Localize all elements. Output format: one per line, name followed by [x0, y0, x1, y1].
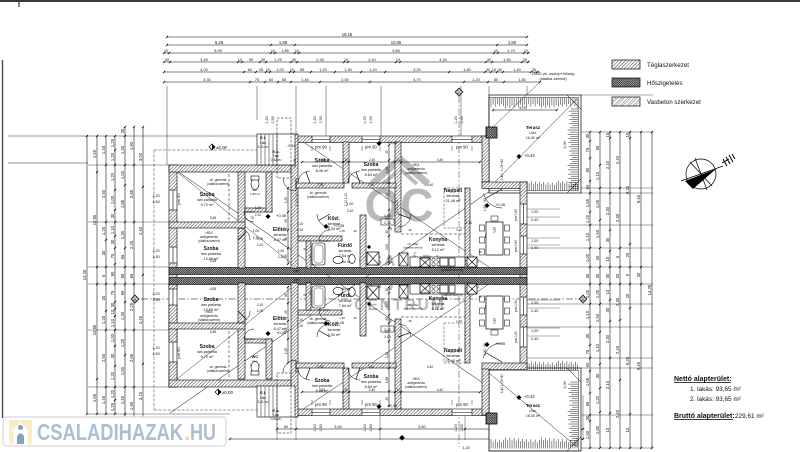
svg-text:1,00: 1,00: [585, 289, 590, 298]
svg-text:80: 80: [494, 78, 498, 82]
svg-text:1,50: 1,50: [369, 116, 373, 123]
svg-text:1,00: 1,00: [120, 170, 125, 179]
svg-text:2. lakás: 93,65 m²: 2. lakás: 93,65 m²: [690, 396, 741, 403]
svg-text:45: 45: [385, 397, 389, 401]
svg-text:4,45: 4,45: [138, 315, 143, 324]
svg-text:4,55: 4,55: [293, 269, 299, 273]
window top wall 3: [452, 136, 472, 143]
svg-text:1,00: 1,00: [295, 193, 299, 200]
svg-text:1,00: 1,00: [585, 253, 590, 262]
svg-text:10,95: 10,95: [92, 214, 97, 225]
svg-text:1,50: 1,50: [460, 116, 464, 123]
svg-text:1,50: 1,50: [319, 424, 323, 431]
svg-text:1,90: 1,90: [129, 141, 134, 150]
svg-text:+0,43: +0,43: [524, 394, 535, 399]
wall furdo top (top): [298, 236, 342, 241]
logo csaladihazak.hu: [3, 417, 226, 446]
dimension chains right: [589, 131, 591, 449]
svg-text:2,40: 2,40: [500, 387, 504, 394]
svg-text:45: 45: [408, 319, 412, 323]
svg-text:2,40: 2,40: [531, 246, 538, 250]
svg-text:1,00: 1,00: [395, 200, 399, 207]
window etkezo right 1: [520, 204, 528, 224]
svg-text:+0,45: +0,45: [387, 140, 398, 145]
svg-text:90: 90: [284, 219, 288, 223]
svg-text:1,65: 1,65: [585, 377, 590, 386]
svg-text:10: 10: [494, 49, 498, 53]
svg-text:4,55: 4,55: [293, 278, 299, 282]
svg-text:1,35: 1,35: [339, 316, 345, 320]
svg-text:50: 50: [585, 362, 590, 367]
svg-text:10: 10: [396, 158, 400, 162]
dimension chain top row 3: [163, 52, 530, 54]
svg-text:1,90: 1,90: [129, 401, 134, 410]
svg-text:1,50: 1,50: [483, 205, 487, 212]
svg-text:2,25: 2,25: [129, 302, 134, 311]
svg-text:85: 85: [300, 68, 304, 72]
svg-text:75: 75: [255, 78, 259, 82]
svg-text:1,20: 1,20: [472, 78, 479, 82]
svg-text:1,10: 1,10: [595, 171, 600, 180]
svg-text:85: 85: [284, 293, 288, 297]
svg-text:2,10: 2,10: [295, 200, 299, 207]
wall etkezo left (top): [465, 188, 470, 268]
interior h dim chain top: [301, 161, 481, 163]
svg-text:10: 10: [344, 158, 348, 162]
svg-text:75: 75: [385, 217, 389, 221]
svg-text:2,50: 2,50: [101, 189, 106, 198]
svg-text:-0,43: -0,43: [287, 144, 295, 148]
svg-text:1,20: 1,20: [152, 249, 159, 253]
svg-text:1,00: 1,00: [255, 206, 262, 210]
svg-text:10: 10: [605, 256, 610, 261]
svg-text:1,40: 1,40: [513, 68, 520, 72]
svg-text:10: 10: [295, 49, 299, 53]
svg-text:pm 0,90: pm 0,90: [514, 209, 518, 221]
svg-text:1,10: 1,10: [456, 228, 462, 232]
legend hoszigeteles: [612, 78, 640, 87]
window top wall 2: [362, 136, 380, 143]
svg-text:75: 75: [250, 216, 254, 220]
svg-text:30: 30: [523, 58, 527, 62]
svg-text:1,30: 1,30: [284, 348, 288, 354]
svg-text:2,40: 2,40: [369, 158, 375, 162]
svg-text:30: 30: [385, 230, 389, 234]
wall under szoba3 (bottom): [296, 363, 344, 368]
svg-text:10: 10: [605, 427, 610, 432]
wall szoba4|nappali (top): [395, 142, 401, 232]
exterior wall jog upper: [482, 182, 527, 189]
dimension chain top row 2: [166, 44, 528, 46]
svg-text:10: 10: [625, 132, 630, 137]
svg-text:90: 90: [595, 145, 600, 150]
section line A-A vertical: [458, 96, 460, 447]
dashed kitchen boundary top: [401, 233, 465, 235]
svg-text:t.ker.: t.ker.: [529, 131, 536, 135]
svg-text:75: 75: [110, 290, 115, 295]
svg-text:1,60: 1,60: [585, 430, 590, 439]
dining table bottom: [486, 296, 503, 329]
svg-text:10: 10: [271, 49, 275, 53]
wall under szoba3 (top): [296, 183, 344, 188]
svg-text:1,45: 1,45: [120, 395, 125, 404]
legend teglaszerkezet: [612, 60, 640, 69]
interior dim chain top unit: [388, 144, 390, 265]
wc wall right (bottom): [266, 339, 272, 379]
terrace bottom-right slab: [489, 368, 581, 451]
svg-text:30: 30: [101, 250, 106, 255]
svg-text:1,00: 1,00: [344, 193, 348, 200]
svg-text:10: 10: [524, 49, 528, 53]
svg-text:1. lakás: 93,65 m²: 1. lakás: 93,65 m²: [690, 386, 741, 393]
svg-text:1,20: 1,20: [152, 194, 159, 198]
door kozl-nappali top: [398, 214, 411, 227]
svg-text:Téglaszerkezet: Téglaszerkezet: [647, 62, 689, 69]
sink bottom: [333, 287, 343, 294]
svg-text:1,10: 1,10: [595, 343, 600, 352]
svg-text:9,25: 9,25: [625, 356, 630, 365]
svg-text:1,00: 1,00: [531, 210, 538, 214]
svg-text:30: 30: [165, 58, 169, 62]
svg-text:1,20: 1,20: [152, 346, 159, 350]
svg-text:1,00: 1,00: [531, 239, 538, 243]
window left wall 1: [169, 190, 178, 210]
svg-text:kerámia: kerámia: [339, 299, 352, 303]
svg-text:lam.parketta: lam.parketta: [361, 168, 381, 172]
svg-text:1,45: 1,45: [120, 145, 125, 154]
svg-text:1,25: 1,25: [120, 338, 125, 347]
svg-text:(statika szerint): (statika szerint): [441, 268, 463, 272]
door szoba1 top: [238, 228, 250, 240]
svg-text:90: 90: [249, 58, 253, 62]
vestibule/hall wall (bottom): [291, 283, 298, 417]
wall furdo left (bottom): [306, 283, 311, 310]
svg-text:2,50: 2,50: [341, 78, 348, 82]
interior dim chain bottom unit: [388, 286, 390, 407]
svg-text:6,12 m²: 6,12 m²: [432, 307, 446, 311]
svg-text:±0,00: ±0,00: [216, 145, 228, 150]
svg-text:2,40: 2,40: [531, 309, 538, 313]
svg-text:pm 90: pm 90: [365, 145, 377, 150]
svg-text:10: 10: [492, 68, 496, 72]
kitchen sink bottom: [440, 285, 448, 293]
svg-text:pm 90: pm 90: [315, 402, 327, 407]
svg-text:4,40: 4,40: [437, 158, 443, 162]
svg-text:10×30: 10×30: [293, 158, 297, 168]
svg-text:pm 90: pm 90: [315, 145, 327, 150]
svg-text:lam.parketta: lam.parketta: [201, 252, 221, 256]
wall szoba4|nappali (bottom): [395, 319, 401, 409]
svg-text:2,50: 2,50: [101, 353, 106, 362]
svg-text:t.ker.: t.ker.: [529, 409, 536, 413]
svg-text:1,10: 1,10: [456, 319, 462, 323]
svg-text:Hőszigetelés: Hőszigetelés: [647, 80, 682, 87]
level markers +0,45: [324, 224, 329, 229]
vestibule/hall wall (top): [291, 134, 298, 268]
svg-text:+0,45: +0,45: [276, 213, 287, 218]
svg-text:lam.parketta: lam.parketta: [312, 164, 332, 168]
svg-text:2,40: 2,40: [368, 183, 375, 187]
svg-text:±0,00: ±0,00: [222, 390, 234, 395]
wc toilet top: [251, 179, 259, 190]
svg-text:2,10: 2,10: [395, 207, 399, 214]
svg-text:30: 30: [595, 373, 600, 378]
svg-text:30: 30: [120, 128, 125, 133]
svg-text:1,20: 1,20: [454, 424, 458, 431]
svg-text:95: 95: [120, 254, 125, 259]
svg-text:1,50: 1,50: [152, 298, 159, 302]
wall furdo right (bottom): [360, 283, 366, 336]
witness lines right: [489, 131, 653, 133]
window etkezo right 2: [520, 236, 528, 254]
svg-text:2,40: 2,40: [369, 388, 375, 392]
svg-text:pm 90: pm 90: [456, 145, 468, 150]
svg-text:9,85: 9,85: [392, 49, 399, 53]
svg-text:8,46 m²: 8,46 m²: [316, 169, 330, 173]
bathtub top: [312, 243, 325, 265]
svg-text:30: 30: [110, 302, 115, 307]
svg-text:1,80: 1,80: [463, 68, 470, 72]
svg-text:(statika szerint): (statika szerint): [404, 307, 423, 311]
svg-text:+0,45: +0,45: [495, 202, 506, 207]
svg-text:2,25: 2,25: [129, 240, 134, 249]
door szoba3 top: [298, 171, 310, 183]
svg-text:4,00: 4,00: [563, 381, 567, 388]
svg-text:(statika szerint): (statika szerint): [405, 171, 427, 175]
svg-text:30: 30: [292, 58, 296, 62]
svg-text:2,30: 2,30: [605, 206, 610, 215]
svg-text:pm 0,90: pm 0,90: [514, 300, 518, 312]
wall left-rooms divider (bottom): [238, 283, 245, 379]
door wc top: [244, 212, 254, 222]
svg-text:1,10: 1,10: [297, 222, 304, 226]
svg-text:10: 10: [110, 309, 115, 314]
duct box (top): [399, 253, 408, 266]
svg-text:kerámia: kerámia: [274, 233, 287, 237]
svg-text:1,25: 1,25: [101, 315, 106, 324]
svg-text:1,25: 1,25: [110, 402, 115, 411]
svg-text:4,40: 4,40: [437, 388, 443, 392]
svg-text:10: 10: [344, 388, 348, 392]
watermark logo: [372, 159, 428, 184]
roof diagonal lines: [170, 166, 526, 413]
svg-text:lam.parketta: lam.parketta: [361, 380, 381, 384]
svg-text:75: 75: [478, 250, 482, 254]
svg-text:95: 95: [284, 237, 288, 241]
svg-text:HU: HU: [190, 419, 216, 445]
svg-text:65: 65: [282, 78, 286, 82]
svg-text:Vasbeton szerkezet: Vasbeton szerkezet: [647, 99, 701, 106]
svg-text:10,05: 10,05: [391, 40, 402, 45]
witness lines bottom: [276, 418, 278, 440]
washer bottom: [367, 286, 379, 299]
svg-text:85: 85: [284, 254, 288, 258]
svg-text:90: 90: [483, 343, 487, 347]
svg-text:pm 90: pm 90: [365, 402, 377, 407]
svg-text:4,55: 4,55: [210, 259, 217, 263]
svg-text:pm 90: pm 90: [456, 402, 468, 407]
svg-text:4,10: 4,10: [493, 227, 497, 233]
svg-text:2,30: 2,30: [615, 213, 620, 222]
door szoba3 bottom: [298, 368, 310, 380]
svg-text:90: 90: [585, 401, 590, 406]
svg-text:1,20: 1,20: [313, 424, 317, 431]
svg-text:1,50: 1,50: [595, 313, 600, 322]
svg-text:(statika szerint): (statika szerint): [207, 369, 229, 373]
svg-text:1,50: 1,50: [271, 116, 275, 123]
window bottom wall 2: [362, 409, 380, 416]
svg-text:8,64 m²: 8,64 m²: [365, 173, 379, 177]
entry porch top: [257, 134, 295, 165]
svg-text:pm 0,90: pm 0,90: [514, 331, 518, 343]
svg-text:30: 30: [585, 273, 590, 278]
svg-text:30: 30: [110, 353, 115, 358]
svg-text:2,10: 2,10: [255, 213, 262, 217]
svg-text:1,00: 1,00: [384, 335, 391, 339]
svg-text:60: 60: [248, 68, 252, 72]
door kozl arc top: [317, 214, 330, 227]
wc wall right (top): [266, 172, 272, 212]
svg-text:3,41 m²: 3,41 m²: [258, 145, 269, 149]
svg-text:2,10: 2,10: [257, 303, 264, 307]
svg-text:3,45: 3,45: [200, 58, 207, 62]
svg-text:30: 30: [261, 58, 265, 62]
svg-text:4,10: 4,10: [493, 318, 497, 324]
svg-text:2,40: 2,40: [531, 337, 538, 341]
window etkezo right 3: [520, 297, 528, 315]
sink top: [333, 256, 343, 263]
svg-text:4,00: 4,00: [200, 68, 207, 72]
svg-text:30: 30: [110, 239, 115, 244]
door kozl-nappali bottom: [398, 324, 411, 337]
svg-text:30: 30: [487, 58, 491, 62]
svg-text:1,50: 1,50: [595, 229, 600, 238]
svg-text:20: 20: [625, 252, 630, 257]
section line B-B: [141, 298, 583, 300]
door szoba1 bottom: [238, 311, 250, 323]
door terrace bottom: [483, 343, 502, 358]
svg-text:1,20: 1,20: [313, 116, 317, 123]
svg-text:2,10: 2,10: [344, 200, 348, 207]
svg-text:30: 30: [595, 273, 600, 278]
svg-text:1,20: 1,20: [595, 395, 600, 404]
wc wall bottom (top): [245, 208, 272, 212]
toilet bath top: [349, 255, 355, 264]
door szoba4 top: [348, 171, 360, 183]
svg-text:60: 60: [303, 293, 307, 297]
svg-text:1,30: 1,30: [120, 311, 125, 320]
wc toilet bottom: [251, 362, 259, 373]
svg-text:kerámia: kerámia: [447, 194, 460, 198]
svg-text:(statika szerint): (statika szerint): [307, 195, 329, 199]
svg-text:(statika szerint): (statika szerint): [405, 385, 427, 389]
svg-text:0,42 m²: 0,42 m²: [271, 158, 282, 162]
svg-text:1,20: 1,20: [363, 116, 367, 123]
svg-text:75: 75: [110, 253, 115, 258]
svg-text:1,00: 1,00: [531, 301, 538, 305]
svg-text:1,00: 1,00: [257, 237, 264, 241]
svg-text:2,40: 2,40: [615, 409, 620, 418]
svg-text:3,46: 3,46: [210, 330, 217, 334]
svg-text:2,35: 2,35: [317, 365, 324, 369]
dashed canopy line right: [444, 188, 465, 228]
svg-text:kerámia: kerámia: [274, 322, 287, 326]
svg-text:50: 50: [595, 255, 600, 260]
svg-text:85: 85: [120, 273, 125, 278]
exterior wall etkezo right: [520, 182, 527, 369]
svg-text:1,30: 1,30: [284, 197, 288, 203]
dimension chain top row 1 (18,15): [166, 36, 528, 38]
svg-text:10: 10: [238, 58, 242, 62]
svg-text:2,10: 2,10: [385, 193, 389, 199]
wall szoba3|szoba4 (bottom): [343, 368, 349, 409]
svg-text:95: 95: [120, 290, 125, 295]
svg-text:30: 30: [101, 295, 106, 300]
svg-text:10: 10: [396, 58, 400, 62]
svg-text:1,10: 1,10: [297, 324, 304, 328]
svg-text:1,20: 1,20: [454, 116, 458, 123]
svg-text:4,00: 4,00: [563, 141, 567, 148]
svg-text:1,10: 1,10: [466, 221, 473, 225]
interior dim chain eloter top: [287, 187, 289, 265]
page left border: [2, 60, 4, 418]
svg-text:4,30: 4,30: [203, 78, 210, 82]
svg-text:1,10: 1,10: [585, 310, 590, 319]
svg-text:CSALADIHAZAK: CSALADIHAZAK: [37, 419, 183, 445]
svg-text:7,64 m²: 7,64 m²: [339, 304, 353, 308]
svg-text:60: 60: [303, 247, 307, 251]
svg-text:0,42 m²: 0,42 m²: [271, 417, 282, 421]
exterior wall left: [169, 165, 177, 387]
svg-text:lam.parketta: lam.parketta: [197, 350, 217, 354]
svg-text:1,30: 1,30: [120, 230, 125, 239]
dimension chain top row 4: [163, 61, 530, 63]
svg-text:1,50: 1,50: [152, 200, 159, 204]
svg-text:1,50: 1,50: [152, 352, 159, 356]
exterior wall top-left: [169, 165, 296, 172]
svg-text:1,45: 1,45: [301, 78, 308, 82]
svg-text:3,60: 3,60: [418, 425, 425, 429]
interior dim chain eloter bottom: [287, 286, 289, 364]
svg-text:21,46 m²: 21,46 m²: [446, 359, 462, 363]
window left wall 4: [169, 342, 178, 362]
svg-text:1,80: 1,80: [595, 425, 600, 434]
svg-text:1,55: 1,55: [92, 393, 97, 402]
svg-text:1,30: 1,30: [344, 68, 351, 72]
svg-text:90: 90: [110, 271, 115, 276]
svg-text:90: 90: [284, 328, 288, 332]
svg-text:2,05: 2,05: [385, 244, 389, 250]
exterior wall bottom-left: [169, 380, 296, 387]
svg-text:45: 45: [408, 228, 412, 232]
svg-text:2,85: 2,85: [129, 353, 134, 362]
svg-text:1,70: 1,70: [507, 49, 514, 53]
svg-text:60: 60: [269, 78, 273, 82]
svg-text:10: 10: [605, 289, 610, 294]
svg-text:kerámia: kerámia: [328, 328, 341, 332]
svg-text:3,15: 3,15: [138, 391, 143, 400]
svg-text:4,40: 4,40: [427, 183, 434, 187]
dimension chain bottom: [276, 428, 584, 430]
svg-text:95: 95: [284, 310, 288, 314]
svg-text:2,35: 2,35: [319, 388, 325, 392]
svg-text:3,60: 3,60: [334, 425, 341, 429]
svg-text:1,20: 1,20: [369, 68, 376, 72]
svg-text:+0,45: +0,45: [334, 223, 345, 228]
dimension chain top row 6: [163, 81, 541, 83]
svg-text:lam.parketta: lam.parketta: [201, 303, 221, 307]
door elotere bottom: [283, 360, 296, 373]
